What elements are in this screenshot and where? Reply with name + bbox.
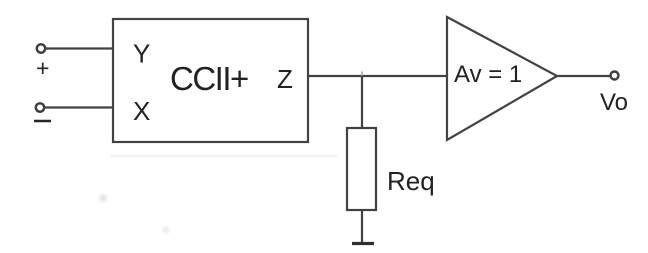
wire input+ to Y pin: [46, 47, 114, 49]
wire junction to Req top: [361, 76, 363, 128]
buffer op-amp Av = 1: [447, 17, 557, 140]
wire input- to X pin: [45, 106, 114, 108]
minus polarity label: [34, 120, 51, 123]
svg-text:X: X: [133, 96, 150, 126]
output terminal Vo: [611, 72, 619, 80]
svg-text:Av = 1: Av = 1: [454, 61, 522, 88]
node junction to Req: [361, 72, 363, 77]
input terminal + (top): [37, 44, 45, 52]
svg-text:Vo: Vo: [600, 89, 628, 116]
wire Z output to buffer input: [308, 75, 447, 77]
wire Req bottom to ground: [361, 210, 363, 243]
current conveyor U1 CCII+ box: [113, 19, 308, 142]
wire buffer output to Vo terminal: [557, 75, 610, 77]
svg-text:Req: Req: [387, 166, 435, 196]
ground: [352, 242, 374, 245]
svg-text:Y: Y: [133, 39, 150, 69]
svg-text:+: +: [36, 55, 49, 81]
input terminal - (bottom): [36, 103, 44, 111]
svg-text:CCII+: CCII+: [170, 60, 248, 97]
resistor Req: [347, 128, 376, 210]
svg-text:Z: Z: [277, 64, 293, 94]
